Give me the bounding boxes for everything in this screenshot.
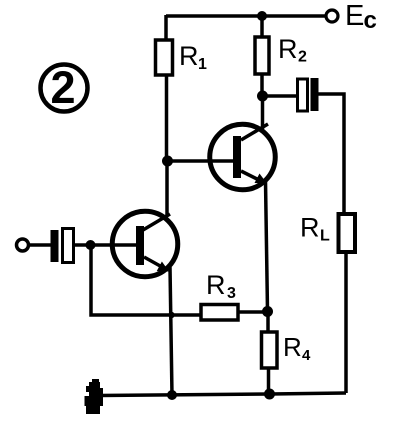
svg-text:c: c (364, 7, 377, 34)
node F: R4 on ground rail (264, 389, 275, 400)
wire Q1 emitter to ground rail (170, 267, 172, 395)
svg-text:1: 1 (198, 56, 207, 73)
resistor R1 (156, 15, 173, 161)
transistor Q2 circle (210, 124, 276, 190)
svg-text:2: 2 (50, 62, 75, 113)
label RL (300, 213, 330, 245)
transistor Q1 emitter stroke with arrow (144, 257, 169, 272)
node A: R1 / T2 base / T1 collector (162, 156, 173, 167)
junction blob at crossing (168, 312, 174, 318)
wire node A to T2 base (168, 159, 234, 163)
transistor Q1 base bar (136, 226, 144, 265)
wire ground rail (99, 393, 346, 396)
node E: Q1 emitter on ground rail (167, 390, 177, 400)
transistor Q1 collector stroke (143, 214, 170, 230)
wire feedback path node B down and right to R3 (91, 247, 201, 315)
label R4 (283, 332, 311, 364)
wire node D to C2 (263, 94, 297, 98)
svg-text:R: R (179, 41, 199, 71)
label R3 (206, 270, 236, 302)
terminal Ec (326, 10, 338, 22)
svg-text:3: 3 (227, 285, 236, 302)
wire Q1 base lead (92, 243, 136, 247)
transistor Q1 circle (112, 211, 178, 277)
svg-text:R: R (300, 213, 320, 243)
wire RL down to ground rail corner (344, 252, 348, 393)
ground symbol (85, 379, 104, 414)
capacitor C2 output coupling (298, 78, 319, 111)
label R2 (278, 34, 307, 66)
transistor Q2 collector stroke (241, 124, 268, 140)
wire C1 to node B (74, 243, 90, 247)
label R1 (179, 41, 207, 73)
node supply junction (257, 11, 267, 21)
terminal input (17, 239, 29, 251)
resistor R4 (262, 311, 278, 394)
resistor R3 (201, 305, 263, 321)
wire input terminal to C1 (29, 243, 51, 247)
capacitor C1 input coupling (51, 229, 74, 263)
svg-text:2: 2 (298, 49, 307, 66)
transistor Q2 base bar (233, 136, 241, 178)
wire Q2 emitter to node C (266, 181, 268, 311)
svg-text:L: L (320, 228, 330, 245)
transistor Q2 emitter stroke with arrow (241, 171, 267, 184)
node D: collector / R2 / C2 junction (257, 91, 268, 102)
resistor RL (339, 214, 356, 252)
svg-text:4: 4 (302, 347, 311, 364)
wire Q2 collector to node D (261, 96, 265, 129)
resistor R2 (255, 15, 269, 96)
node B: input junction (86, 240, 96, 250)
wire node A down to T1 collector (165, 161, 169, 216)
wire C2 right and down to RL (318, 94, 344, 214)
svg-text:R: R (206, 270, 226, 300)
svg-text:E: E (345, 0, 364, 32)
node C: emitter / R3 / R4 junction (262, 306, 273, 317)
label Ec (345, 0, 377, 34)
wire top supply rail (166, 14, 327, 18)
svg-text:R: R (283, 332, 302, 362)
badge figure number 2 (41, 62, 88, 113)
svg-text:R: R (278, 34, 298, 64)
